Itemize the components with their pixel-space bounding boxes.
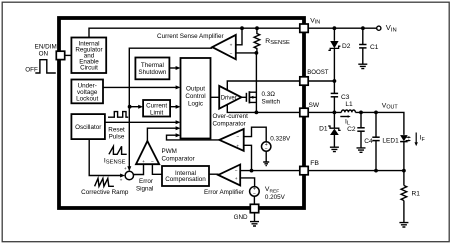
svg-text:Logic: Logic — [188, 101, 203, 108]
svg-text:Corrective Ramp: Corrective Ramp — [81, 189, 129, 196]
svg-text:Shutdown: Shutdown — [138, 69, 167, 76]
svg-text:+: + — [236, 144, 239, 149]
svg-text:+: + — [142, 160, 145, 165]
svg-text:GND: GND — [234, 214, 248, 221]
svg-text:Lockout: Lockout — [76, 95, 98, 102]
svg-text:−: − — [235, 169, 238, 174]
svg-text:Pulse: Pulse — [109, 134, 125, 141]
svg-text:Reset: Reset — [108, 126, 125, 133]
svg-text:+: + — [230, 44, 233, 49]
svg-text:−: − — [236, 136, 239, 141]
svg-text:C4: C4 — [364, 138, 373, 145]
svg-text:Control: Control — [185, 93, 205, 100]
svg-text:BOOST: BOOST — [307, 69, 329, 76]
svg-text:Error Amplifier: Error Amplifier — [204, 189, 244, 196]
svg-text:0.328V: 0.328V — [270, 135, 291, 142]
svg-text:Current Sense Amplifier: Current Sense Amplifier — [157, 33, 224, 40]
svg-text:OFF: OFF — [25, 66, 38, 73]
svg-text:−: − — [253, 192, 256, 198]
svg-text:Oscillator: Oscillator — [75, 124, 101, 131]
svg-text:C1: C1 — [370, 44, 379, 51]
svg-text:Current: Current — [146, 102, 167, 109]
svg-text:Error: Error — [139, 178, 153, 185]
svg-text:R1: R1 — [412, 190, 421, 197]
svg-text:Driver: Driver — [221, 96, 237, 102]
svg-text:LED1: LED1 — [382, 138, 399, 145]
svg-text:Signal: Signal — [136, 186, 154, 193]
svg-text:Compensation: Compensation — [165, 176, 206, 183]
svg-text:+: + — [120, 178, 123, 183]
svg-text:Over-current: Over-current — [213, 113, 249, 120]
svg-text:Output: Output — [186, 86, 205, 93]
svg-text:+: + — [124, 167, 127, 172]
svg-text:−: − — [230, 52, 233, 57]
svg-text:Comparator: Comparator — [162, 155, 195, 162]
svg-text:Switch: Switch — [262, 98, 281, 105]
svg-text:Limit: Limit — [150, 109, 164, 116]
svg-text:Thermal: Thermal — [141, 62, 164, 69]
svg-text:D2: D2 — [342, 43, 351, 50]
svg-text:0.3Ω: 0.3Ω — [262, 91, 276, 98]
svg-text:Comparator: Comparator — [213, 121, 246, 128]
svg-text:Circuit: Circuit — [80, 65, 98, 72]
svg-text:L1: L1 — [345, 101, 353, 108]
svg-text:−: − — [151, 160, 154, 165]
svg-text:+: + — [235, 177, 238, 182]
svg-text:0.205V: 0.205V — [265, 194, 286, 201]
svg-text:C2: C2 — [347, 126, 356, 133]
svg-text:D1: D1 — [319, 125, 328, 132]
svg-text:PWM: PWM — [162, 148, 177, 155]
svg-text:ON: ON — [39, 51, 49, 58]
svg-text:−: − — [265, 147, 268, 153]
svg-text:SW: SW — [309, 102, 320, 109]
svg-text:FB: FB — [310, 160, 319, 167]
